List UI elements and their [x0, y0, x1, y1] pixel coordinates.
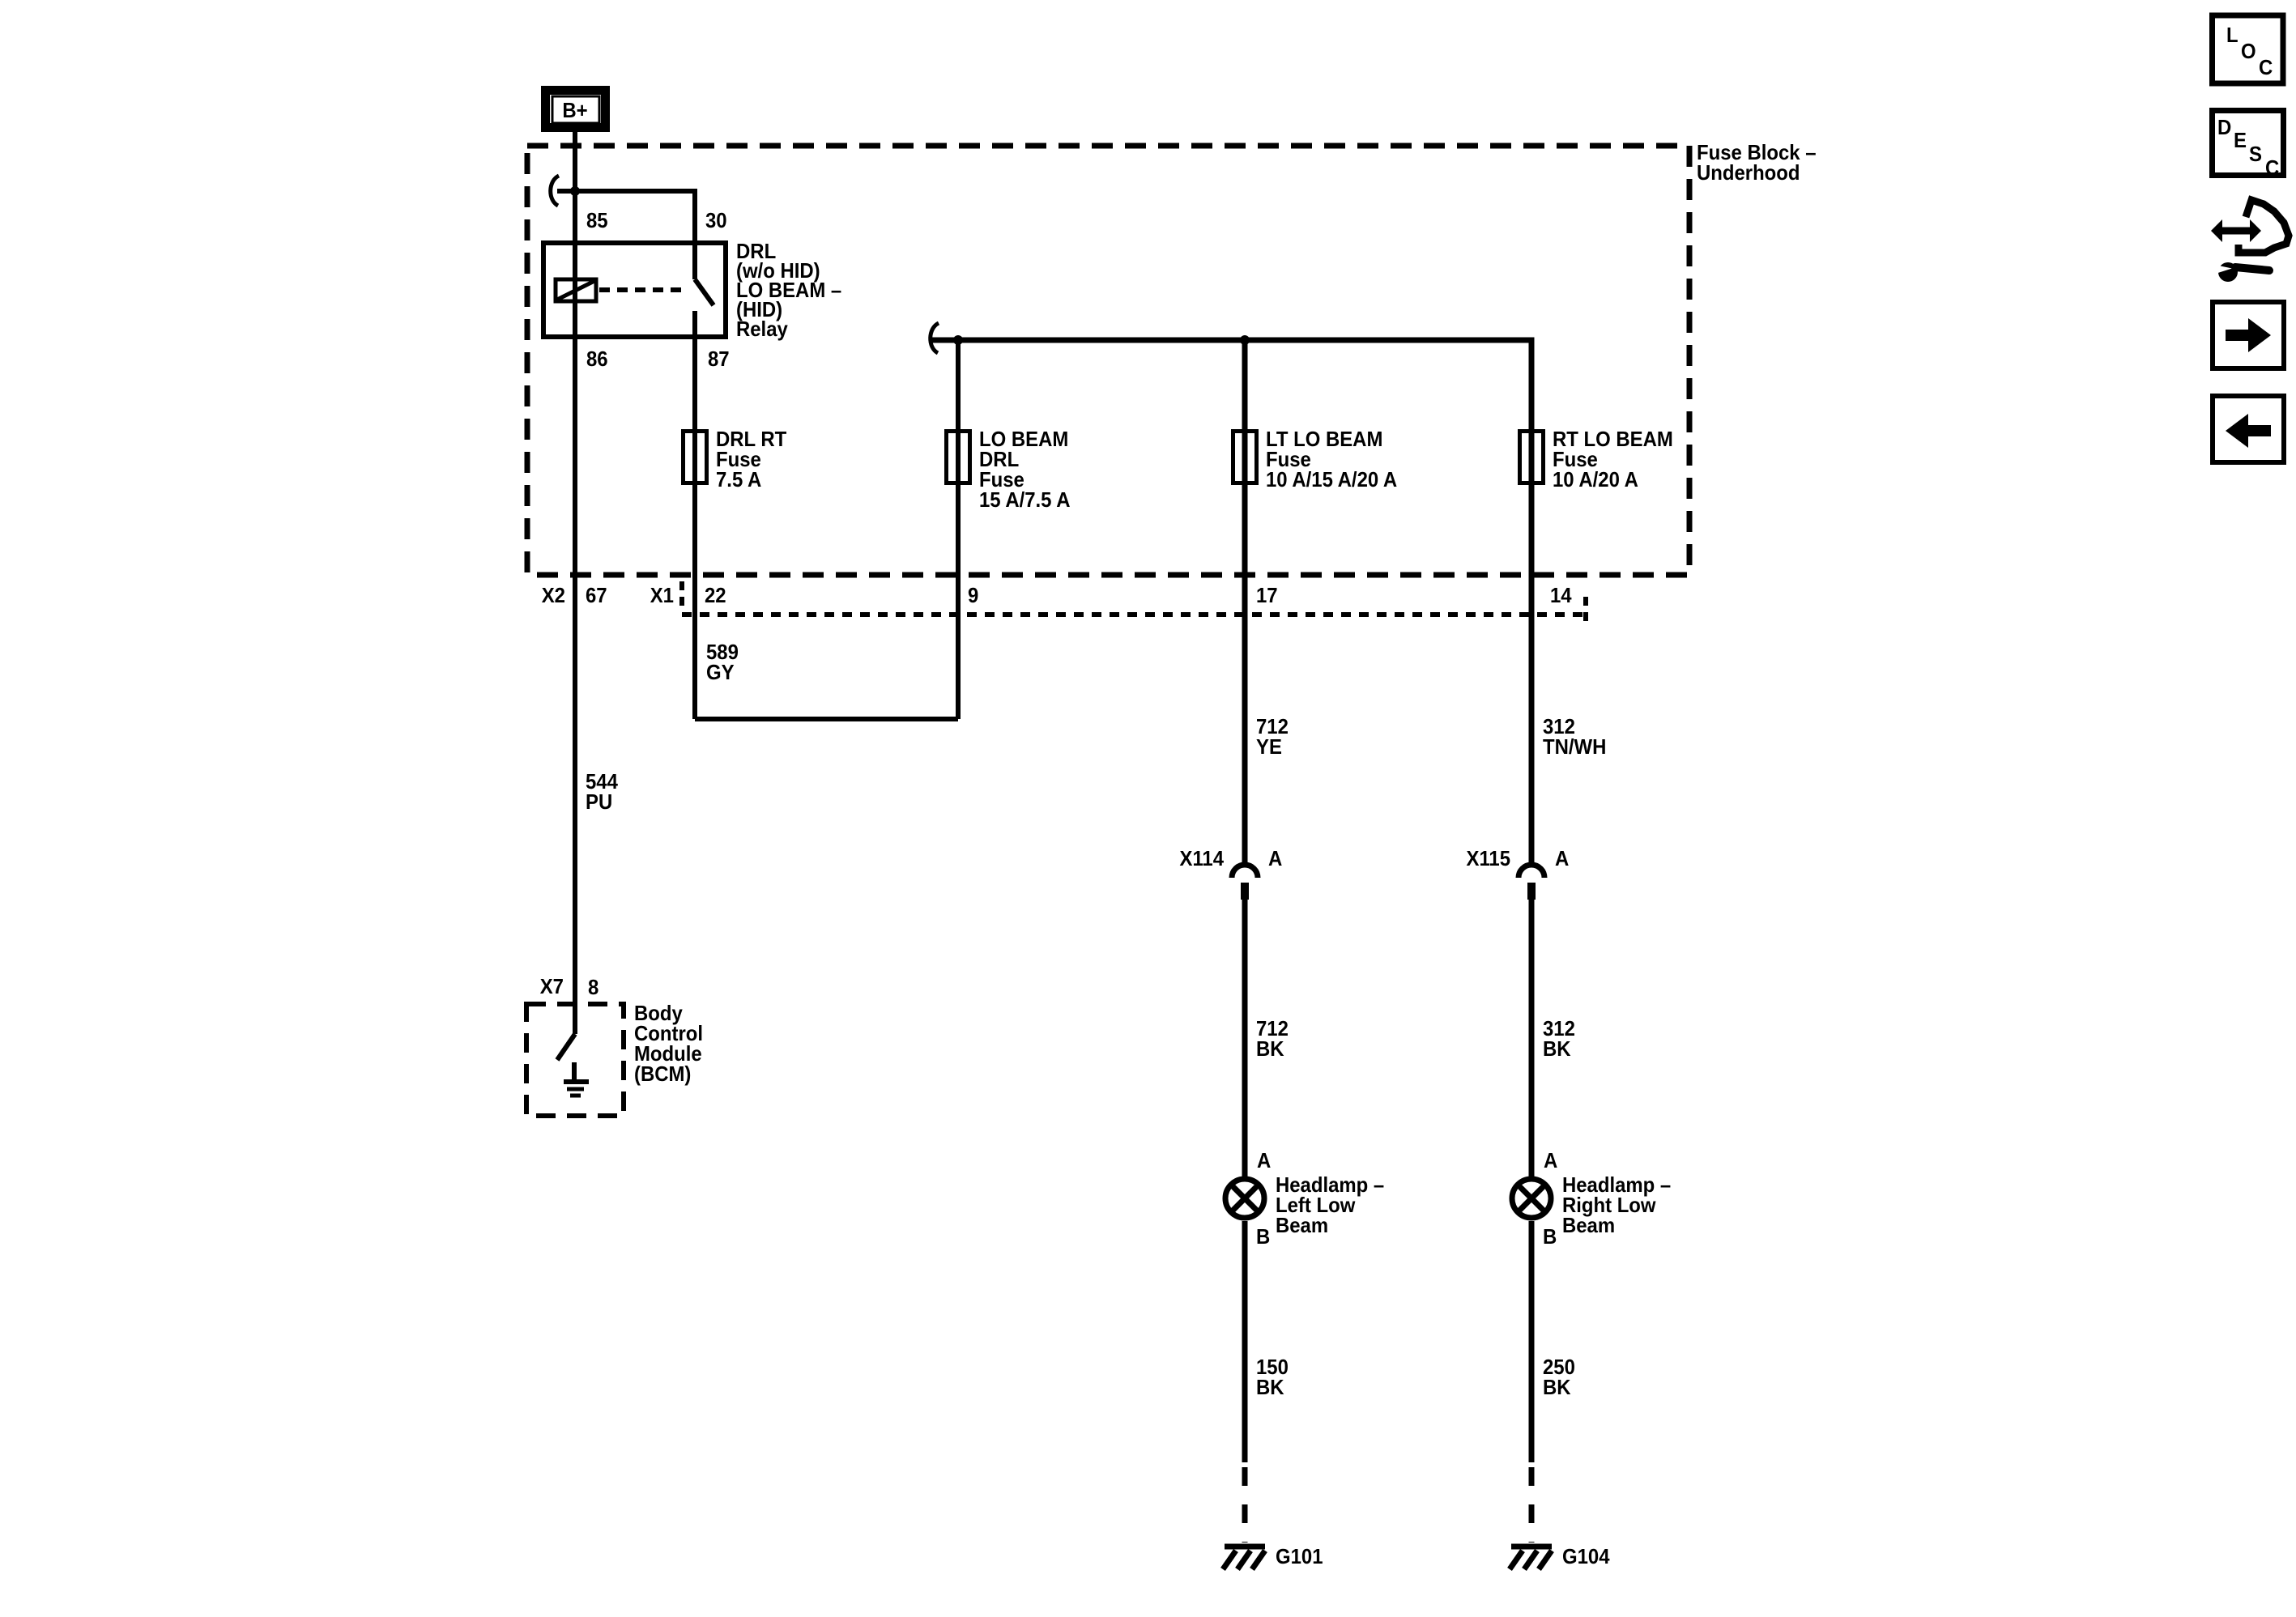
ground G104 chassis symbol [1510, 1547, 1552, 1569]
icon DESC box [2213, 111, 2284, 181]
svg-text:TN/WH: TN/WH [1543, 734, 1606, 759]
svg-text:L: L [2226, 23, 2238, 47]
icon forward arrow box [2213, 302, 2284, 368]
lamp Headlamp &#8211; Left Low [1225, 1179, 1264, 1218]
svg-text:X114: X114 [1180, 846, 1225, 870]
fuse DRL RT 7.5A [684, 432, 707, 483]
svg-text:A: A [1268, 846, 1283, 870]
icon diagnostic jagged outline [2238, 200, 2289, 253]
svg-text:B+: B+ [562, 98, 587, 122]
svg-text:8: 8 [588, 975, 598, 999]
label 150 BK [1256, 1355, 1289, 1399]
svg-text:C: C [2265, 155, 2280, 180]
svg-text:A: A [1257, 1148, 1272, 1172]
svg-text:BK: BK [1543, 1036, 1571, 1061]
wire 589 GY from pin 22 to pin 9 [695, 717, 958, 721]
svg-text:X7: X7 [540, 974, 564, 998]
svg-text:B: B [1256, 1224, 1270, 1249]
wire 312 TN/WH fuse to connector X115 [1529, 489, 1535, 865]
svg-text:YE: YE [1256, 734, 1282, 759]
dashed wire to ground [1529, 1467, 1535, 1543]
svg-text:G104: G104 [1562, 1544, 1610, 1568]
label 312 TN/WH [1543, 714, 1606, 759]
BCM switch blade [557, 1034, 575, 1060]
current hook symbol at fuse feed bus [931, 323, 939, 353]
svg-text:87: 87 [708, 347, 730, 371]
wire 712 BK connector to lamp [1242, 900, 1248, 1177]
wire 150 BK lamp to ground [1242, 1221, 1248, 1462]
power symbol B+ [546, 91, 606, 128]
node junction LT LO BEAM fuse [1240, 335, 1250, 345]
svg-text:10 A/15 A/20 A: 10 A/15 A/20 A [1266, 467, 1397, 491]
svg-text:15 A/7.5 A: 15 A/7.5 A [979, 487, 1071, 512]
fuse LT LO BEAM [1233, 432, 1257, 483]
fuse RT LO BEAM [1520, 432, 1544, 483]
svg-text:PU: PU [586, 789, 612, 814]
dashed wire to ground [1242, 1467, 1248, 1543]
svg-text:BK: BK [1256, 1375, 1284, 1399]
icon diagnostic wrench [2217, 262, 2269, 282]
node junction LO BEAM DRL fuse [953, 335, 963, 345]
node splice junction on B+ feed [570, 186, 580, 196]
svg-text:GY: GY [706, 660, 735, 684]
wire 312 BK connector to lamp [1529, 900, 1535, 1177]
wire 544 PU from B+ through relay coil to BCM switch [573, 132, 577, 1034]
svg-text:67: 67 [586, 583, 607, 607]
wire feed bus to fuses [931, 340, 1531, 489]
connector X114 half-circle terminal [1232, 865, 1258, 900]
label Body Control Module (BCM) [634, 1001, 703, 1086]
current hook symbol at splice near B+ [551, 176, 559, 206]
wire 250 BK lamp to ground [1529, 1221, 1535, 1462]
svg-text:(BCM): (BCM) [634, 1062, 691, 1086]
icon diagnostic double arrow [2211, 219, 2261, 242]
icon LOC box [2213, 15, 2284, 83]
fuse block - underhood dashed outline [527, 146, 1689, 575]
connector X1 bottom dotted line [682, 612, 1586, 617]
label 544 PU [586, 769, 618, 814]
wire splice to relay pin 30 [557, 191, 695, 279]
label headlamp name [1562, 1172, 1671, 1237]
relay actuation dashed link [599, 287, 688, 292]
svg-text:7.5 A: 7.5 A [716, 467, 761, 491]
icon back arrow box [2213, 396, 2284, 462]
svg-text:14: 14 [1550, 583, 1572, 607]
svg-text:22: 22 [705, 583, 726, 607]
svg-text:E: E [2234, 128, 2247, 152]
connector X1 right dashed end [1583, 597, 1588, 627]
svg-text:Relay: Relay [736, 317, 788, 341]
label headlamp name [1276, 1172, 1384, 1237]
relay switch blade pin 30 to 87 [695, 279, 714, 305]
svg-text:30: 30 [705, 208, 727, 232]
svg-text:A: A [1555, 846, 1570, 870]
svg-text:Beam: Beam [1276, 1213, 1328, 1237]
relay DRL (w/o HID) LO BEAM (HID) box [543, 243, 726, 337]
svg-text:B: B [1543, 1224, 1557, 1249]
svg-text:85: 85 [586, 208, 608, 232]
svg-text:Beam: Beam [1562, 1213, 1615, 1237]
body control module dashed box [526, 1004, 624, 1116]
svg-text:BK: BK [1543, 1375, 1571, 1399]
svg-text:86: 86 [586, 347, 608, 371]
svg-text:BK: BK [1256, 1036, 1284, 1061]
svg-text:X115: X115 [1467, 846, 1511, 870]
relay coil [556, 279, 596, 301]
wire bus drop through LT LO BEAM fuse [1242, 340, 1248, 489]
svg-text:S: S [2249, 142, 2262, 166]
svg-text:Underhood: Underhood [1697, 160, 1800, 185]
label Fuse Block - Underhood [1697, 140, 1817, 185]
svg-text:17: 17 [1256, 583, 1278, 607]
connector X1 left dashed end [679, 581, 684, 610]
connector X115 half-circle terminal [1519, 865, 1544, 900]
svg-text:X2: X2 [542, 583, 565, 607]
lamp Headlamp &#8211; Right Low [1512, 1179, 1551, 1218]
ground G101 chassis symbol [1223, 1547, 1265, 1569]
svg-text:A: A [1544, 1148, 1558, 1172]
label 712 BK [1256, 1016, 1289, 1061]
label 312 BK [1543, 1016, 1575, 1061]
svg-text:9: 9 [968, 583, 978, 607]
label relay name [736, 239, 841, 341]
wire bus drop through LO BEAM DRL fuse to pin 9 [956, 340, 961, 719]
svg-text:X1: X1 [650, 583, 674, 607]
svg-text:D: D [2217, 115, 2231, 139]
svg-text:C: C [2259, 55, 2273, 79]
label 712 YE [1256, 714, 1289, 759]
fuse LO BEAM DRL [947, 432, 970, 483]
label 589 GY [706, 640, 739, 684]
svg-text:G101: G101 [1276, 1544, 1323, 1568]
BCM internal ground [564, 1062, 589, 1096]
label 250 BK [1543, 1355, 1575, 1399]
svg-text:10 A/20 A: 10 A/20 A [1553, 467, 1638, 491]
wire 712 YE fuse to connector X114 [1242, 489, 1248, 865]
svg-text:O: O [2241, 39, 2256, 63]
wire relay pin 87 stub down through fuse to splice [692, 311, 697, 719]
